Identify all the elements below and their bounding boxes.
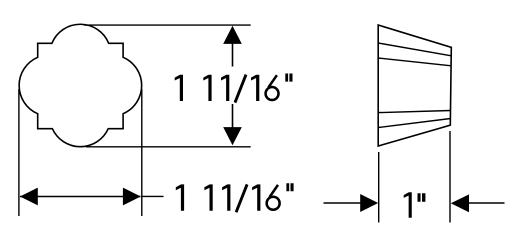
side profile groove line top 2: [378, 58, 451, 66]
wire left extension line of width dimension: [18, 89, 20, 216]
wire left arrow leader: [324, 202, 362, 204]
arrowhead right: [123, 188, 141, 206]
side profile outline: [378, 25, 451, 146]
arrowhead pointing right: [360, 194, 378, 212]
wire width dimension tail to label: [142, 195, 164, 197]
side profile groove line bottom 2: [378, 119, 450, 128]
wire right arrow leader: [469, 202, 505, 204]
quatrefoil cross-section outline: [19, 24, 142, 146]
label height 1 11/16": [175, 74, 293, 104]
wire width dimension line: [20, 196, 141, 198]
wire left extension line of thickness dimension: [378, 152, 380, 223]
wire right extension line of thickness dimension: [449, 131, 451, 223]
wire height dimension line lower segment: [232, 104, 234, 128]
arrowhead up: [223, 26, 242, 44]
wire top extension line of height dimension: [84, 24, 251, 26]
label width 1 11/16": [176, 183, 294, 213]
wire bottom extension line of height dimension: [86, 146, 251, 148]
label thickness 1": [404, 192, 426, 218]
arrowhead down: [223, 127, 242, 145]
wire height dimension line upper segment: [232, 43, 234, 67]
arrowhead left: [20, 188, 38, 206]
side profile groove line top 1: [378, 43, 451, 56]
arrowhead pointing left: [451, 194, 469, 212]
side profile groove line bottom 1: [378, 111, 450, 113]
wire right extension line of width dimension: [141, 89, 143, 216]
